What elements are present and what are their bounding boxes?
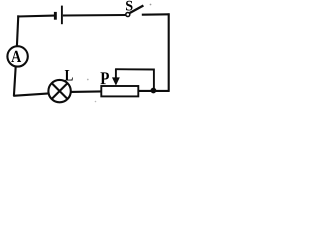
battery long plate (positive) (61, 6, 63, 25)
wire left vertical lower (ammeter to bottom corner) (14, 66, 16, 96)
rheostat P body (101, 86, 138, 96)
wire wiper loop (up, across, down to junction) (115, 69, 154, 90)
wire lamp to rheostat (71, 90, 102, 93)
switch S pivot (126, 13, 130, 17)
switch S blade (open) (130, 6, 144, 14)
label P (100, 72, 108, 84)
rheostat P wiper arrow (112, 69, 120, 86)
lamp L body (48, 80, 70, 102)
junction node (wiper tap on bottom wire) (151, 88, 157, 94)
ammeter A body (7, 46, 27, 66)
wire bottom-left (corner to lamp) (13, 93, 49, 95)
label A (inside ammeter) (11, 51, 21, 62)
wire bottom-right (rheostat to right corner) (138, 90, 169, 92)
wire top-left horizontal (17, 15, 54, 18)
wire right vertical (168, 13, 170, 91)
speck noise (87, 4, 152, 103)
wire left vertical upper (top corner to ammeter) (17, 15, 18, 46)
wire battery to switch (63, 14, 126, 17)
label L (65, 70, 73, 80)
wire switch contact to top-right corner (142, 13, 170, 15)
battery short plate (negative) (54, 12, 57, 20)
label S (126, 1, 133, 11)
